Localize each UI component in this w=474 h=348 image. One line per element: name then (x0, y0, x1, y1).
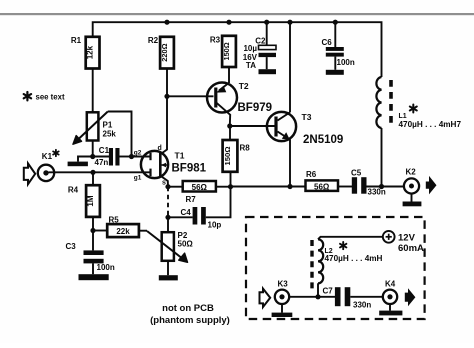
wire C5 to K2 (367, 186, 405, 188)
svg-text:330n: 330n (368, 188, 386, 197)
transistor T3 2N5109 (267, 112, 343, 146)
wire K2 to ground (411, 194, 413, 202)
resistor R6 56 ohm (306, 170, 339, 191)
svg-text:K4: K4 (385, 280, 396, 289)
capacitor C5 330n (351, 169, 386, 197)
svg-text:150Ω: 150Ω (222, 42, 231, 60)
wire C1 to node B (120, 156, 132, 158)
junction node D1 (R7/R8/C4/output) (228, 184, 233, 189)
connector K4 (BNC) (383, 280, 397, 304)
wire K4 to ground (389, 304, 391, 311)
junction source/R7 (165, 184, 170, 189)
resistor R4 1M (68, 185, 100, 217)
svg-text:T3: T3 (302, 112, 312, 122)
wire g2 lead (132, 156, 151, 158)
svg-text:C4: C4 (181, 208, 192, 217)
wire output line left (231, 186, 306, 188)
svg-text:2N5109: 2N5109 (303, 134, 343, 146)
junction L1 / output (379, 184, 384, 189)
junction bus-R2 (164, 20, 169, 25)
wire source node to C4 node (dashed) (167, 187, 169, 218)
svg-text:100n: 100n (337, 58, 355, 67)
page top rule (0, 13, 474, 15)
svg-text:C3: C3 (66, 242, 77, 251)
svg-text:60mA: 60mA (398, 243, 424, 254)
svg-text:g2: g2 (134, 149, 142, 156)
wire T3 base (230, 125, 275, 127)
svg-text:R4: R4 (68, 186, 79, 195)
wire T3 emitter to output line (289, 140, 291, 187)
wire R6 to C5 (338, 186, 352, 188)
wire R8 bottom to node D1 (230, 172, 232, 187)
junction bus-T3 collector (287, 20, 292, 25)
asterisk at L1 (410, 105, 417, 113)
svg-text:C5: C5 (351, 169, 362, 178)
ground bar at P1 (68, 162, 88, 167)
svg-text:T2: T2 (239, 81, 249, 91)
asterisk at K1 (53, 150, 59, 156)
output arrow at K2 (426, 176, 437, 195)
inductor L2 (312, 239, 383, 290)
wire R4 bottom to C3 node (92, 217, 94, 231)
resistor R1 12k (71, 36, 100, 69)
junction T1 drain / R2 / T2 base (164, 94, 169, 99)
resistor R2 220 ohm (148, 36, 174, 69)
output arrow at K4 (405, 288, 416, 306)
wire node A to C1 (93, 156, 109, 158)
ground bar at C2 (259, 69, 277, 74)
input arrow at K3 (260, 289, 271, 307)
svg-text:10µ: 10µ (243, 44, 257, 53)
capacitor C2 10u 16V tantalum (243, 22, 276, 70)
capacitor C3 100n (66, 231, 115, 275)
asterisk at L2 (340, 242, 346, 249)
wire T2 base (167, 95, 214, 97)
svg-text:R7: R7 (186, 195, 197, 204)
wire C3 node to R5 (93, 230, 107, 232)
svg-text:R8: R8 (240, 144, 251, 153)
svg-text:K3: K3 (278, 280, 289, 289)
wire R8 top (229, 126, 231, 140)
inductor L1 (376, 77, 461, 129)
wire node A to ground (78, 157, 93, 162)
junction bus-C2 (264, 20, 269, 25)
ground bar at P2 (159, 275, 178, 280)
capacitor C1 47n (95, 146, 120, 167)
svg-text:C7: C7 (323, 287, 334, 296)
transistor T2 BF979 (207, 81, 272, 126)
svg-text:25k: 25k (103, 130, 117, 139)
input arrow at K1 (24, 163, 35, 184)
svg-text:470µH . . . 4mH7: 470µH . . . 4mH7 (399, 120, 462, 129)
wire P2 bottom (167, 261, 169, 275)
12V 60mA supply terminal (383, 231, 424, 254)
dashed box (phantom supply, not on PCB) (246, 217, 425, 319)
svg-text:d: d (158, 145, 162, 152)
wire R2 to T1 drain node (166, 69, 168, 97)
wire R3 to T2 emitter (228, 67, 230, 83)
svg-text:s: s (162, 180, 166, 187)
svg-text:BF979: BF979 (238, 102, 273, 114)
svg-text:22k: 22k (116, 227, 130, 236)
wire L1 to output line (381, 128, 383, 186)
note: see text (24, 92, 31, 100)
junction L2 / K3 line (315, 294, 320, 299)
junction T3 emitter / output (287, 184, 292, 189)
svg-text:P1: P1 (103, 121, 113, 130)
svg-text:C1: C1 (99, 146, 110, 155)
svg-text:470µH . . . 4mH: 470µH . . . 4mH (325, 254, 383, 263)
resistor R8 150 ohm (223, 140, 251, 172)
potentiometer P1 25k (73, 112, 132, 157)
ground bar at K4 (379, 311, 402, 316)
wire R5 to P2 wiper (139, 230, 147, 232)
node B junction (C1/wiper/g2) (129, 154, 134, 159)
svg-text:330n: 330n (353, 301, 371, 310)
wire R4 top (92, 172, 94, 185)
resistor R5 22k (107, 215, 139, 237)
svg-text:not on PCB: not on PCB (162, 303, 214, 314)
connector K2 (BNC output) (404, 168, 419, 194)
capacitor C7 330n (323, 287, 372, 310)
wire T3 collector to bus (289, 22, 291, 112)
svg-text:R5: R5 (109, 215, 120, 224)
wire K1 to g1 (49, 171, 151, 173)
wire: +12V top supply bus (93, 22, 382, 77)
svg-text:56Ω: 56Ω (192, 183, 208, 192)
svg-text:C6: C6 (322, 38, 333, 47)
svg-text:10p: 10p (208, 221, 222, 230)
svg-text:220Ω: 220Ω (160, 43, 169, 61)
junction C4 (165, 215, 170, 220)
svg-text:K2: K2 (406, 168, 417, 177)
trimmer P2 50 ohm (147, 231, 193, 262)
resistor R7 56 ohm (183, 181, 216, 204)
svg-text:see text: see text (36, 92, 65, 101)
connector K1 (BNC input) (38, 152, 54, 181)
capacitor C4 10p (168, 187, 231, 230)
svg-text:12k: 12k (86, 45, 95, 59)
wire L2 to 12V (318, 237, 383, 240)
ground bar at C3 (79, 274, 109, 280)
junction bus-C6 (333, 20, 338, 25)
svg-text:R1: R1 (71, 36, 82, 45)
svg-text:R2: R2 (148, 36, 159, 45)
svg-text:150Ω: 150Ω (223, 147, 232, 166)
wire P1 bottom to node A (92, 141, 94, 157)
node A junction (P1/C1/ground) (90, 154, 95, 159)
svg-text:R6: R6 (306, 170, 317, 179)
capacitor C6 100n (322, 22, 355, 70)
resistor R3 150 ohm (210, 36, 236, 68)
svg-text:TA: TA (246, 61, 256, 70)
svg-text:100n: 100n (97, 263, 115, 272)
svg-text:g1: g1 (134, 175, 142, 182)
svg-text:56Ω: 56Ω (314, 182, 330, 191)
ground bar at C6 (326, 70, 344, 75)
ground bar at K2 (403, 202, 422, 207)
wire R7 to node D1 (216, 186, 231, 188)
wire L2 to K3 line (317, 283, 319, 297)
wire T1 source to R7 (168, 186, 183, 188)
svg-text:(phantom supply): (phantom supply) (150, 315, 230, 326)
junction T2 collector / R8 / T3 base (227, 123, 232, 128)
svg-text:47n: 47n (95, 158, 109, 167)
junction K1/R4 (90, 170, 95, 175)
wire K3 to C7 (289, 296, 335, 298)
transistor T1 BF981 dual-gate MOSFET (134, 96, 207, 186)
svg-text:K1: K1 (42, 152, 53, 161)
wire R1 to P1 (92, 69, 94, 113)
svg-text:BF981: BF981 (172, 163, 207, 175)
wire C4 node to P2 (167, 217, 169, 232)
svg-text:R3: R3 (210, 36, 221, 45)
junction bus-R3 (226, 20, 231, 25)
connector K3 (BNC) (275, 280, 289, 304)
wire C7 to K4 (350, 296, 383, 298)
svg-text:T1: T1 (175, 151, 185, 161)
ground bar at K3 (272, 313, 293, 317)
wire K3 to ground (281, 304, 283, 313)
junction R4/R5/C3 (90, 228, 95, 233)
svg-text:50Ω: 50Ω (178, 239, 194, 248)
svg-text:1M: 1M (86, 195, 95, 206)
